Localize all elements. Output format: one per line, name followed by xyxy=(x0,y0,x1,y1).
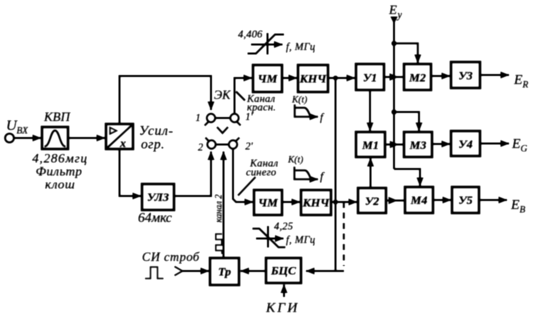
block БЦС color sync xyxy=(266,258,301,283)
switch ЭК contact 1 xyxy=(207,114,215,122)
svg-text:М1: М1 xyxy=(361,138,379,152)
block Усил-огр limiter amplifier U2 xyxy=(106,124,133,150)
svg-text:У4: У4 xyxy=(458,137,472,151)
wire between contacts 2 and 2' xyxy=(216,144,229,146)
svg-text:М4: М4 xyxy=(410,193,428,207)
svg-text:ВХ: ВХ xyxy=(17,127,30,137)
block У5 xyxy=(452,187,479,213)
svg-text:E: E xyxy=(388,2,397,17)
svg-text:У3: У3 xyxy=(458,69,472,83)
wire КНЧ blue to У2 with junction xyxy=(331,200,357,205)
svg-text:М2: М2 xyxy=(408,71,426,85)
label Канал синего with leader xyxy=(238,159,278,196)
block УЛЗ delay line xyxy=(142,184,174,210)
svg-text:G: G xyxy=(521,145,528,155)
svg-text:канал 2: канал 2 xyxy=(214,194,224,223)
wire У5 output to E_B xyxy=(479,199,507,201)
block М3 xyxy=(404,132,432,157)
wire bus from КНЧ outputs down to БЦС xyxy=(306,78,336,271)
discriminator curve 4,406 f МГц xyxy=(238,30,315,55)
net label E_G xyxy=(511,137,528,155)
input СИ строб with pulse symbol xyxy=(142,250,209,279)
wire М3 to У4 xyxy=(432,143,450,145)
svg-text:E: E xyxy=(513,73,523,88)
switch ЭК contact 2' xyxy=(229,140,237,148)
svg-text:f, МГц: f, МГц xyxy=(286,42,315,53)
svg-text:E: E xyxy=(511,137,521,152)
svg-text:К(t): К(t) xyxy=(291,95,307,106)
svg-text:В: В xyxy=(520,206,526,216)
wire М2 to У3 xyxy=(431,75,450,77)
wire Усил-огр top to switch contact 1 xyxy=(120,76,212,124)
svg-text:КНЧ: КНЧ xyxy=(299,72,327,86)
wire input to КВП xyxy=(13,137,41,139)
block ЧМ blue FM detector xyxy=(254,190,282,215)
wire contact 2' down to ЧМ blue xyxy=(233,149,253,202)
svg-text:x: x xyxy=(119,136,126,150)
block У3 xyxy=(451,62,480,88)
block М4 xyxy=(405,187,433,213)
svg-text:огр.: огр. xyxy=(141,137,165,152)
label Канал красн. with leader xyxy=(236,92,276,114)
wire М4 to У5 xyxy=(433,199,451,201)
svg-text:1: 1 xyxy=(195,113,200,124)
wire УЛЗ output up to contact 2 xyxy=(174,152,211,197)
svg-text:КВП: КВП xyxy=(43,109,72,124)
svg-text:У5: У5 xyxy=(458,193,472,207)
block М1 xyxy=(356,132,385,157)
svg-text:У1: У1 xyxy=(363,71,377,85)
switch ЭК contact 1' xyxy=(230,114,238,122)
wire stub right of БЦС line xyxy=(336,270,345,272)
svg-text:R: R xyxy=(522,81,529,91)
wire ЧМ to КНЧ blue xyxy=(282,201,300,203)
svg-text:КГИ: КГИ xyxy=(265,301,299,316)
block КНЧ blue xyxy=(301,190,331,215)
wire У4 output to E_G xyxy=(480,143,509,145)
svg-text:ЧМ: ЧМ xyxy=(258,196,278,210)
switch chevron xyxy=(217,127,228,133)
switch ЭК contact 2 xyxy=(207,140,215,148)
svg-text:f, МГц: f, МГц xyxy=(286,235,315,246)
response curve К(f) red xyxy=(291,95,325,124)
svg-text:2': 2' xyxy=(245,142,253,153)
svg-text:синего: синего xyxy=(246,168,276,179)
input КГИ xyxy=(265,285,299,317)
svg-text:ЧМ: ЧМ xyxy=(258,72,278,86)
wire У1 down to М1 xyxy=(369,90,371,131)
net label E_B xyxy=(510,198,526,216)
wire Усил-огр bottom to УЛЗ xyxy=(120,149,142,196)
block У2 xyxy=(358,188,386,213)
svg-text:М3: М3 xyxy=(409,138,427,152)
wire ЧМ to КНЧ red xyxy=(282,77,297,79)
svg-text:У2: У2 xyxy=(365,194,379,208)
switch blade tick contact 2' xyxy=(235,138,239,142)
svg-text:2: 2 xyxy=(198,143,204,154)
svg-text:красн.: красн. xyxy=(247,103,276,114)
svg-text:E: E xyxy=(510,198,520,213)
block КНЧ red xyxy=(298,65,328,92)
block ЧМ red FM detector xyxy=(253,65,282,92)
junction E_Y to М2 xyxy=(391,41,417,63)
svg-text:клош: клош xyxy=(45,177,75,192)
svg-text:4,25: 4,25 xyxy=(274,222,293,233)
svg-text:КНЧ: КНЧ xyxy=(302,196,330,210)
wire Тр up to switch with meander symbol xyxy=(216,152,224,259)
net label E_R xyxy=(513,73,529,91)
svg-text:К(t): К(t) xyxy=(287,155,303,166)
svg-text:64мкс: 64мкс xyxy=(138,210,172,225)
svg-text:УЛЗ: УЛЗ xyxy=(147,190,169,204)
wire БЦС to Тр xyxy=(241,270,267,272)
switch blade tick contact 1 xyxy=(205,122,209,126)
svg-text:4,406: 4,406 xyxy=(238,30,263,41)
label Усил-огр xyxy=(139,123,174,152)
wire КНЧ red to У1 with junction xyxy=(328,76,355,81)
wire between contacts 1 and 1' xyxy=(215,117,230,119)
wire У1 to М2 arrowhead at crossing xyxy=(384,76,403,78)
wire У2 to М4 xyxy=(386,200,404,202)
block КВП bell filter xyxy=(42,109,72,149)
block Тр trigger xyxy=(210,258,239,285)
svg-text:СИ строб: СИ строб xyxy=(142,250,200,264)
wire У3 output to E_R xyxy=(480,74,509,76)
dashed control line xyxy=(343,202,345,266)
wire У2 up to М1 xyxy=(370,158,372,188)
svg-text:Тр: Тр xyxy=(218,265,231,279)
junction E_Y to М3 xyxy=(391,109,419,131)
svg-text:у: у xyxy=(397,10,403,21)
wire КВП to Усил-огр xyxy=(68,137,105,139)
wire М1 to М3 arrowhead at crossing xyxy=(385,144,403,146)
block М2 xyxy=(404,64,431,90)
response curve К(f) blue xyxy=(287,155,325,184)
wire contact 1' up to ЧМ red xyxy=(235,78,253,114)
svg-text:1': 1' xyxy=(245,112,253,123)
wire E_Y to М4 xyxy=(394,169,420,186)
value label 4,286мгц Фильтр клеш xyxy=(32,151,88,192)
block У1 xyxy=(356,64,384,90)
switch blade tick contact 2 xyxy=(205,138,209,142)
net E_Y entry xyxy=(388,2,403,169)
switch blade tick contact 1' xyxy=(237,121,241,125)
svg-text:БЦС: БЦС xyxy=(270,264,297,278)
svg-text:ЭК: ЭК xyxy=(214,88,231,102)
block У4 xyxy=(451,131,480,156)
discriminator curve 4,25 f МГц xyxy=(252,222,315,248)
input terminal U_BX xyxy=(5,118,29,142)
